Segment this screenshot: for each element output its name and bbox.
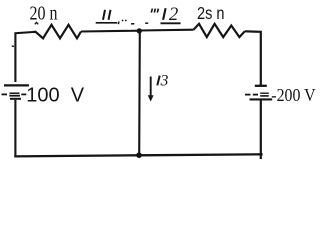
svg-text:20 n: 20 n	[30, 3, 58, 25]
svg-text:2s n: 2s n	[197, 3, 225, 23]
wire bottom right segment	[139, 154, 263, 155]
battery V2 dash 2	[253, 94, 258, 96]
node top junction dot	[137, 28, 142, 33]
current label I2 stroke	[163, 8, 166, 20]
speckle dash 2	[145, 22, 148, 24]
svg-text:2: 2	[169, 5, 178, 25]
wire right vertical lower segment with tail	[260, 101, 262, 160]
current arrow I3 shaft	[150, 77, 152, 97]
speckle caret above R1 start	[35, 22, 38, 24]
arrow shaft under I1	[96, 22, 118, 24]
battery V2 top short plate	[255, 85, 267, 87]
battery V1 left dash	[2, 93, 8, 95]
speckle dash 1	[131, 23, 134, 25]
speckle dot 2	[125, 20, 127, 22]
triple prime marks before I2	[151, 9, 158, 13]
resistor R1 (20 ohm) zigzag	[33, 25, 81, 39]
battery V1 right dash	[21, 93, 26, 95]
wire left vertical lower segment	[14, 100, 16, 157]
current label I1 stroke 2	[109, 10, 111, 20]
wire middle vertical branch	[138, 31, 141, 155]
battery V1 middle upper line	[10, 92, 20, 94]
wire top-left corner and left top segment	[15, 32, 33, 82]
svg-text:-200 V: -200 V	[271, 85, 315, 105]
wire from R1 to top junction	[81, 30, 139, 33]
speckle comma after I1	[117, 22, 120, 25]
speckle dot 1	[122, 20, 124, 22]
wire from top junction to R2	[139, 29, 193, 32]
battery V2 middle upper line	[260, 92, 269, 94]
battery V2 dash 1	[245, 94, 251, 96]
battery V1 middle lower line	[9, 95, 20, 97]
current arrow I3 head	[148, 95, 154, 101]
wire bottom left segment	[14, 155, 139, 156]
resistor R2 (2s n) zigzag	[194, 24, 245, 37]
current label I3 stroke	[157, 76, 159, 86]
battery V2 middle lower line	[260, 95, 269, 97]
speckle nub on left wire	[12, 45, 14, 47]
current label I1 stroke 1	[103, 10, 105, 20]
node bottom junction dot	[136, 152, 142, 158]
svg-text:3: 3	[160, 73, 169, 90]
arrow shaft under I2	[161, 22, 181, 24]
battery V2 bottom long plate	[250, 98, 273, 100]
svg-text:100 V: 100 V	[26, 85, 84, 107]
wire from R2 to top-right corner	[245, 31, 261, 85]
battery V1 top long plate	[4, 84, 29, 86]
battery V1 bottom short plate	[10, 98, 21, 100]
